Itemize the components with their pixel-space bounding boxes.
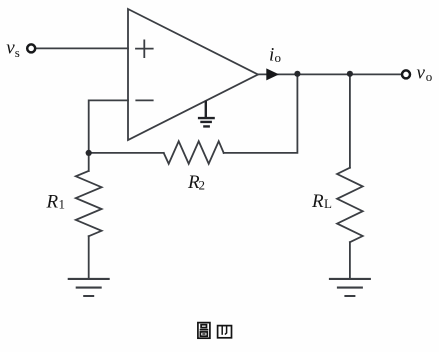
svg-text:2: 2 — [199, 178, 206, 193]
wire node A to R1 — [88, 153, 90, 171]
ground under RL — [329, 279, 371, 296]
svg-text:1: 1 — [59, 197, 66, 212]
wire R2 to output node — [224, 74, 298, 152]
svg-text:i: i — [269, 45, 274, 66]
svg-text:s: s — [15, 45, 20, 60]
wire node A to R2 — [89, 152, 164, 154]
svg-text:o: o — [426, 69, 433, 84]
terminal vo — [402, 70, 410, 78]
wire vs to plus input — [37, 47, 128, 49]
op-amp ground — [198, 101, 215, 127]
output node junction dot — [294, 71, 300, 77]
svg-text:R: R — [311, 191, 324, 212]
wire minus input to node A — [89, 100, 128, 152]
ground under R1 — [68, 279, 110, 296]
caption glyph 圖 — [198, 323, 210, 339]
op-amp minus input marker — [136, 99, 152, 101]
RL node junction dot — [347, 71, 353, 77]
wire output node to RL — [349, 74, 351, 167]
node A junction dot — [86, 150, 92, 156]
wire R1 to ground — [88, 236, 90, 278]
resistor RL — [337, 168, 363, 243]
resistor R2 — [164, 141, 224, 164]
io current arrowhead — [266, 68, 279, 80]
svg-text:v: v — [417, 63, 426, 84]
svg-text:R: R — [46, 191, 59, 212]
op-amp plus input marker — [136, 40, 153, 57]
resistor R1 — [76, 171, 102, 236]
wire op-amp output to vo terminal — [258, 73, 402, 75]
caption glyph 四 — [218, 326, 232, 338]
terminal vs — [27, 44, 35, 52]
svg-text:o: o — [275, 50, 282, 65]
wire RL to ground — [349, 242, 351, 278]
svg-text:L: L — [324, 196, 332, 211]
op-amp U1 — [128, 9, 258, 140]
